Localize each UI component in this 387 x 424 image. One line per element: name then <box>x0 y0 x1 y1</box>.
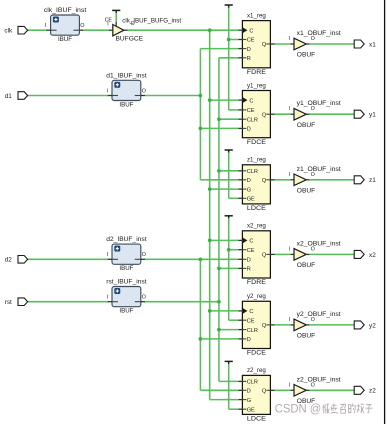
wire d1 branch to D of y1_reg <box>200 127 238 129</box>
svg-text:CSDN @: CSDN @ <box>275 402 322 416</box>
svg-text:CLR: CLR <box>247 380 258 386</box>
wire vcc branch to CE of x2_reg <box>229 249 239 251</box>
svg-text:OBUF: OBUF <box>297 262 315 269</box>
OBUF x1_OBUF_inst <box>289 30 341 59</box>
junction clock net at y=240.4 <box>208 239 212 243</box>
OBUF y2_OBUF_inst <box>289 311 341 340</box>
svg-text:y1_reg: y1_reg <box>247 82 266 89</box>
svg-text:x1_OBUF_inst: x1_OBUF_inst <box>297 30 341 37</box>
svg-text:G: G <box>247 187 251 193</box>
power vcc tie-high for x1_reg/y1_reg CE <box>225 5 233 8</box>
svg-text:FDRE: FDRE <box>247 279 266 286</box>
power vcc tie-high for BUFGCE CE <box>112 10 120 13</box>
svg-text:CE: CE <box>247 318 255 324</box>
svg-text:y1_OBUF_inst: y1_OBUF_inst <box>297 100 341 107</box>
svg-text:D: D <box>247 127 251 133</box>
wire x1 OBUF output to port x1 <box>309 43 354 45</box>
wire rst branch to CLR of z1_reg <box>219 170 239 172</box>
junction rst net at y=170.8 <box>217 169 221 173</box>
input port rst <box>5 298 28 306</box>
junction rst net at y=268.4 <box>217 267 221 271</box>
svg-text:I: I <box>106 295 108 301</box>
svg-text:CLR: CLR <box>247 117 258 123</box>
wire d2 net vertical trunk <box>199 259 201 390</box>
junction rst net at y=119.2 <box>217 117 221 121</box>
buffer clk_IBUF_BUFG_inst (BUFGCE) <box>105 17 182 42</box>
OBUF x2_OBUF_inst <box>289 240 341 269</box>
svg-text:D: D <box>247 178 251 184</box>
wire d1 net vertical trunk <box>199 49 201 180</box>
svg-text:I: I <box>45 23 47 29</box>
junction data net at y=95.5 <box>199 94 203 98</box>
svg-text:CLR: CLR <box>247 328 258 334</box>
svg-text:LDCE: LDCE <box>247 416 266 423</box>
svg-text:x1_reg: x1_reg <box>247 12 266 19</box>
wire clk input: port to clk IBUF <box>27 29 47 31</box>
svg-text:x2_OBUF_inst: x2_OBUF_inst <box>297 240 341 247</box>
svg-text:clk: clk <box>4 28 13 35</box>
register y1_reg (FDCE) <box>238 82 274 146</box>
power vcc tie-high for z2_reg GE <box>225 361 233 364</box>
output port x1 <box>354 40 376 48</box>
svg-text:R: R <box>247 56 251 62</box>
svg-text:Q: Q <box>262 389 267 395</box>
svg-text:I: I <box>289 172 290 178</box>
svg-text:z2_reg: z2_reg <box>247 367 266 374</box>
wire z1_reg Q to z1 OBUF <box>274 179 291 181</box>
wire z1 OBUF output to port z1 <box>309 179 354 181</box>
svg-text:x2_reg: x2_reg <box>247 223 266 230</box>
junction rst net at y=329.6 <box>217 328 221 332</box>
junction clock net at y=30.2 <box>208 28 212 32</box>
wire rst net vertical trunk <box>218 58 220 382</box>
svg-text:OBUF: OBUF <box>297 187 315 194</box>
IBUF d2_IBUF_inst <box>106 236 147 272</box>
wire y1_reg Q to y1 OBUF <box>274 113 291 115</box>
junction data net at y=338.9 <box>199 337 203 341</box>
output port x2 <box>354 250 376 258</box>
svg-text:z1_reg: z1_reg <box>247 157 266 164</box>
svg-text:I: I <box>106 252 108 258</box>
wire vcc drop into BUFGCE CE pin <box>115 11 117 22</box>
register z1_reg (LDCE) <box>238 157 274 213</box>
wire x2_reg Q to x2 OBUF <box>274 253 291 255</box>
wire z2 OBUF output to port z2 <box>309 389 354 391</box>
IBUF d1_IBUF_inst <box>106 72 147 108</box>
wire vcc branch to CE of x1_reg <box>229 39 239 41</box>
svg-text:IBUF: IBUF <box>119 308 133 315</box>
svg-text:C: C <box>249 309 253 315</box>
output port z1 <box>354 176 376 184</box>
svg-text:D: D <box>247 47 251 53</box>
svg-text:d2: d2 <box>5 257 13 264</box>
register x2_reg (FDRE) <box>238 223 274 287</box>
wire y2 OBUF output to port y2 <box>309 324 354 326</box>
svg-text:FDCE: FDCE <box>247 139 266 146</box>
wire x2 OBUF output to port x2 <box>309 253 354 255</box>
svg-text:FDCE: FDCE <box>247 350 266 357</box>
wire vcc segment to GE of z1_reg <box>228 151 230 198</box>
svg-text:IBUF: IBUF <box>119 265 133 272</box>
svg-text:OBUF: OBUF <box>297 333 315 340</box>
OBUF y1_OBUF_inst <box>289 100 341 129</box>
wire clock branch to C of x2_reg <box>210 239 239 241</box>
svg-text:z2_OBUF_inst: z2_OBUF_inst <box>297 376 341 383</box>
svg-text:Q: Q <box>262 178 267 184</box>
svg-text:IBUF: IBUF <box>119 101 133 108</box>
power vcc tie-high for x2_reg/y2_reg CE <box>225 216 233 219</box>
svg-text:y2_reg: y2_reg <box>247 293 266 300</box>
svg-text:OBUF: OBUF <box>297 122 315 129</box>
wire clk IBUF output to BUFGCE input <box>84 29 109 31</box>
svg-text:I: I <box>289 317 290 323</box>
wire y1 OBUF output to port y1 <box>309 113 354 115</box>
wire clock branch to C of y2_reg <box>210 310 239 312</box>
wire d1 input: port to d1 IBUF <box>27 95 108 97</box>
svg-text:CE: CE <box>247 108 255 114</box>
OBUF z2_OBUF_inst <box>289 376 341 405</box>
svg-text:D: D <box>247 389 251 395</box>
svg-text:GE: GE <box>247 407 255 413</box>
register x1_reg (FDRE) <box>238 12 274 76</box>
wire clock branch to G of z1_reg <box>210 188 239 190</box>
svg-text:D: D <box>247 337 251 343</box>
svg-text:Q: Q <box>262 253 267 259</box>
wire vcc branch to CE of y1_reg <box>229 109 239 111</box>
svg-text:FDRE: FDRE <box>247 69 266 76</box>
wire rst branch to R of x1_reg <box>219 57 239 59</box>
wire rst branch to R of x2_reg <box>219 267 239 269</box>
svg-text:z2: z2 <box>369 388 376 395</box>
input port d2 <box>5 256 28 264</box>
svg-text:C: C <box>249 239 253 245</box>
svg-text:LDCE: LDCE <box>247 205 266 212</box>
svg-text:R: R <box>247 267 251 273</box>
svg-text:IBUF: IBUF <box>58 36 72 43</box>
svg-text:C: C <box>249 28 253 34</box>
svg-text:rst: rst <box>5 299 12 306</box>
svg-text:GE: GE <box>247 197 255 203</box>
svg-text:C: C <box>249 98 253 104</box>
wire vcc segment to GE of z2_reg <box>228 362 230 409</box>
svg-text:d1_IBUF_inst: d1_IBUF_inst <box>106 72 147 79</box>
svg-text:clk_IBUF_inst: clk_IBUF_inst <box>44 7 87 14</box>
wire d2 input: port to d2 IBUF <box>27 258 108 260</box>
power vcc tie-high for z1_reg GE <box>225 150 233 153</box>
register y2_reg (FDCE) <box>238 293 274 357</box>
svg-text:O: O <box>142 295 146 301</box>
output port y2 <box>354 321 376 329</box>
junction clock net at y=310.9 <box>208 309 212 313</box>
svg-text:D: D <box>247 258 251 264</box>
svg-text:O: O <box>142 252 146 258</box>
wire rst input: port to rst IBUF <box>27 301 108 303</box>
svg-text:y2_OBUF_inst: y2_OBUF_inst <box>297 311 341 318</box>
svg-text:Q: Q <box>262 42 267 48</box>
wire clock net horizontal: BUFGCE output to C of x1_reg <box>128 29 239 31</box>
wire y2_reg Q to y2 OBUF <box>274 324 291 326</box>
svg-text:y1: y1 <box>369 112 376 119</box>
junction data net at y=259.3 <box>199 257 203 261</box>
svg-text:I: I <box>289 36 290 42</box>
input port d1 <box>5 92 28 100</box>
wire vcc segment to CE of x1_reg and CE of y1_reg <box>228 6 230 110</box>
wire rst branch to CLR of y1_reg <box>219 118 239 120</box>
wire clock branch to C of y1_reg <box>210 99 239 101</box>
junction vcc net at y=39.5 <box>227 38 231 42</box>
svg-text:d1: d1 <box>5 93 13 100</box>
svg-text:Q: Q <box>262 112 267 118</box>
window edge line at right <box>384 0 386 424</box>
svg-text:x2: x2 <box>369 252 376 259</box>
svg-text:x1: x1 <box>369 41 376 48</box>
svg-text:I: I <box>289 106 290 112</box>
svg-text:OBUF: OBUF <box>297 52 315 59</box>
watermark CSDN @被选召的孩子 <box>275 402 373 416</box>
svg-text:CE: CE <box>247 248 255 254</box>
svg-text:I: I <box>107 21 108 27</box>
junction clock net at y=100.1 <box>208 98 212 102</box>
svg-text:clk_IBUF_BUFG_inst: clk_IBUF_BUFG_inst <box>122 18 181 25</box>
IBUF clk_IBUF_inst <box>44 7 87 43</box>
svg-text:y2: y2 <box>369 322 376 329</box>
junction vcc net at y=249.7 <box>227 248 231 252</box>
svg-text:BUFGCE: BUFGCE <box>116 35 144 42</box>
svg-text:G: G <box>247 398 251 404</box>
wire d2 net: IBUF output to D of x2_reg <box>145 258 239 260</box>
wire d1 net: IBUF output to vertical trunk <box>145 95 201 97</box>
svg-text:CE: CE <box>247 38 255 44</box>
wire vcc segment to CE of x2_reg and CE of y2_reg <box>228 217 230 320</box>
wire x1_reg Q to x1 OBUF <box>274 43 291 45</box>
wire rst net: IBUF output to vertical trunk <box>145 301 219 303</box>
svg-text:I: I <box>106 88 108 94</box>
wire rst branch to CLR of y2_reg <box>219 329 239 331</box>
wire clock branch to G of z2_reg <box>210 399 239 401</box>
svg-text:d2_IBUF_inst: d2_IBUF_inst <box>106 236 147 243</box>
svg-text:I: I <box>289 382 290 388</box>
wire vcc branch to CE of y2_reg <box>229 319 239 321</box>
output port y1 <box>354 110 376 118</box>
wire d1 branch to D of z1_reg <box>200 179 238 181</box>
junction data net at y=128.4 <box>199 127 203 131</box>
output port z2 <box>354 386 376 394</box>
svg-text:z1_OBUF_inst: z1_OBUF_inst <box>297 166 341 173</box>
wire d2 branch to D of y2_reg <box>200 338 238 340</box>
svg-text:O: O <box>80 23 84 29</box>
IBUF rst_IBUF_inst <box>106 279 147 315</box>
register z2_reg (LDCE) <box>238 367 274 422</box>
wire d1 branch to D of x1_reg <box>200 48 238 50</box>
wire d2 branch to D of z2_reg <box>200 389 238 391</box>
junction rst net at y=301.7 <box>217 300 221 304</box>
svg-text:z1: z1 <box>369 177 376 184</box>
svg-text:O: O <box>142 88 146 94</box>
wire rst branch to CLR of z2_reg <box>219 380 239 382</box>
svg-text:Q: Q <box>262 323 267 329</box>
svg-text:CLR: CLR <box>247 169 258 175</box>
wire z2_reg Q to z2 OBUF <box>274 389 291 391</box>
svg-text:rst_IBUF_inst: rst_IBUF_inst <box>106 279 147 286</box>
input port clk <box>4 26 27 34</box>
OBUF z1_OBUF_inst <box>289 166 341 195</box>
wire clock net vertical trunk <box>209 30 211 399</box>
svg-text:I: I <box>289 246 290 252</box>
junction clock net at y=189.1 <box>208 187 212 191</box>
